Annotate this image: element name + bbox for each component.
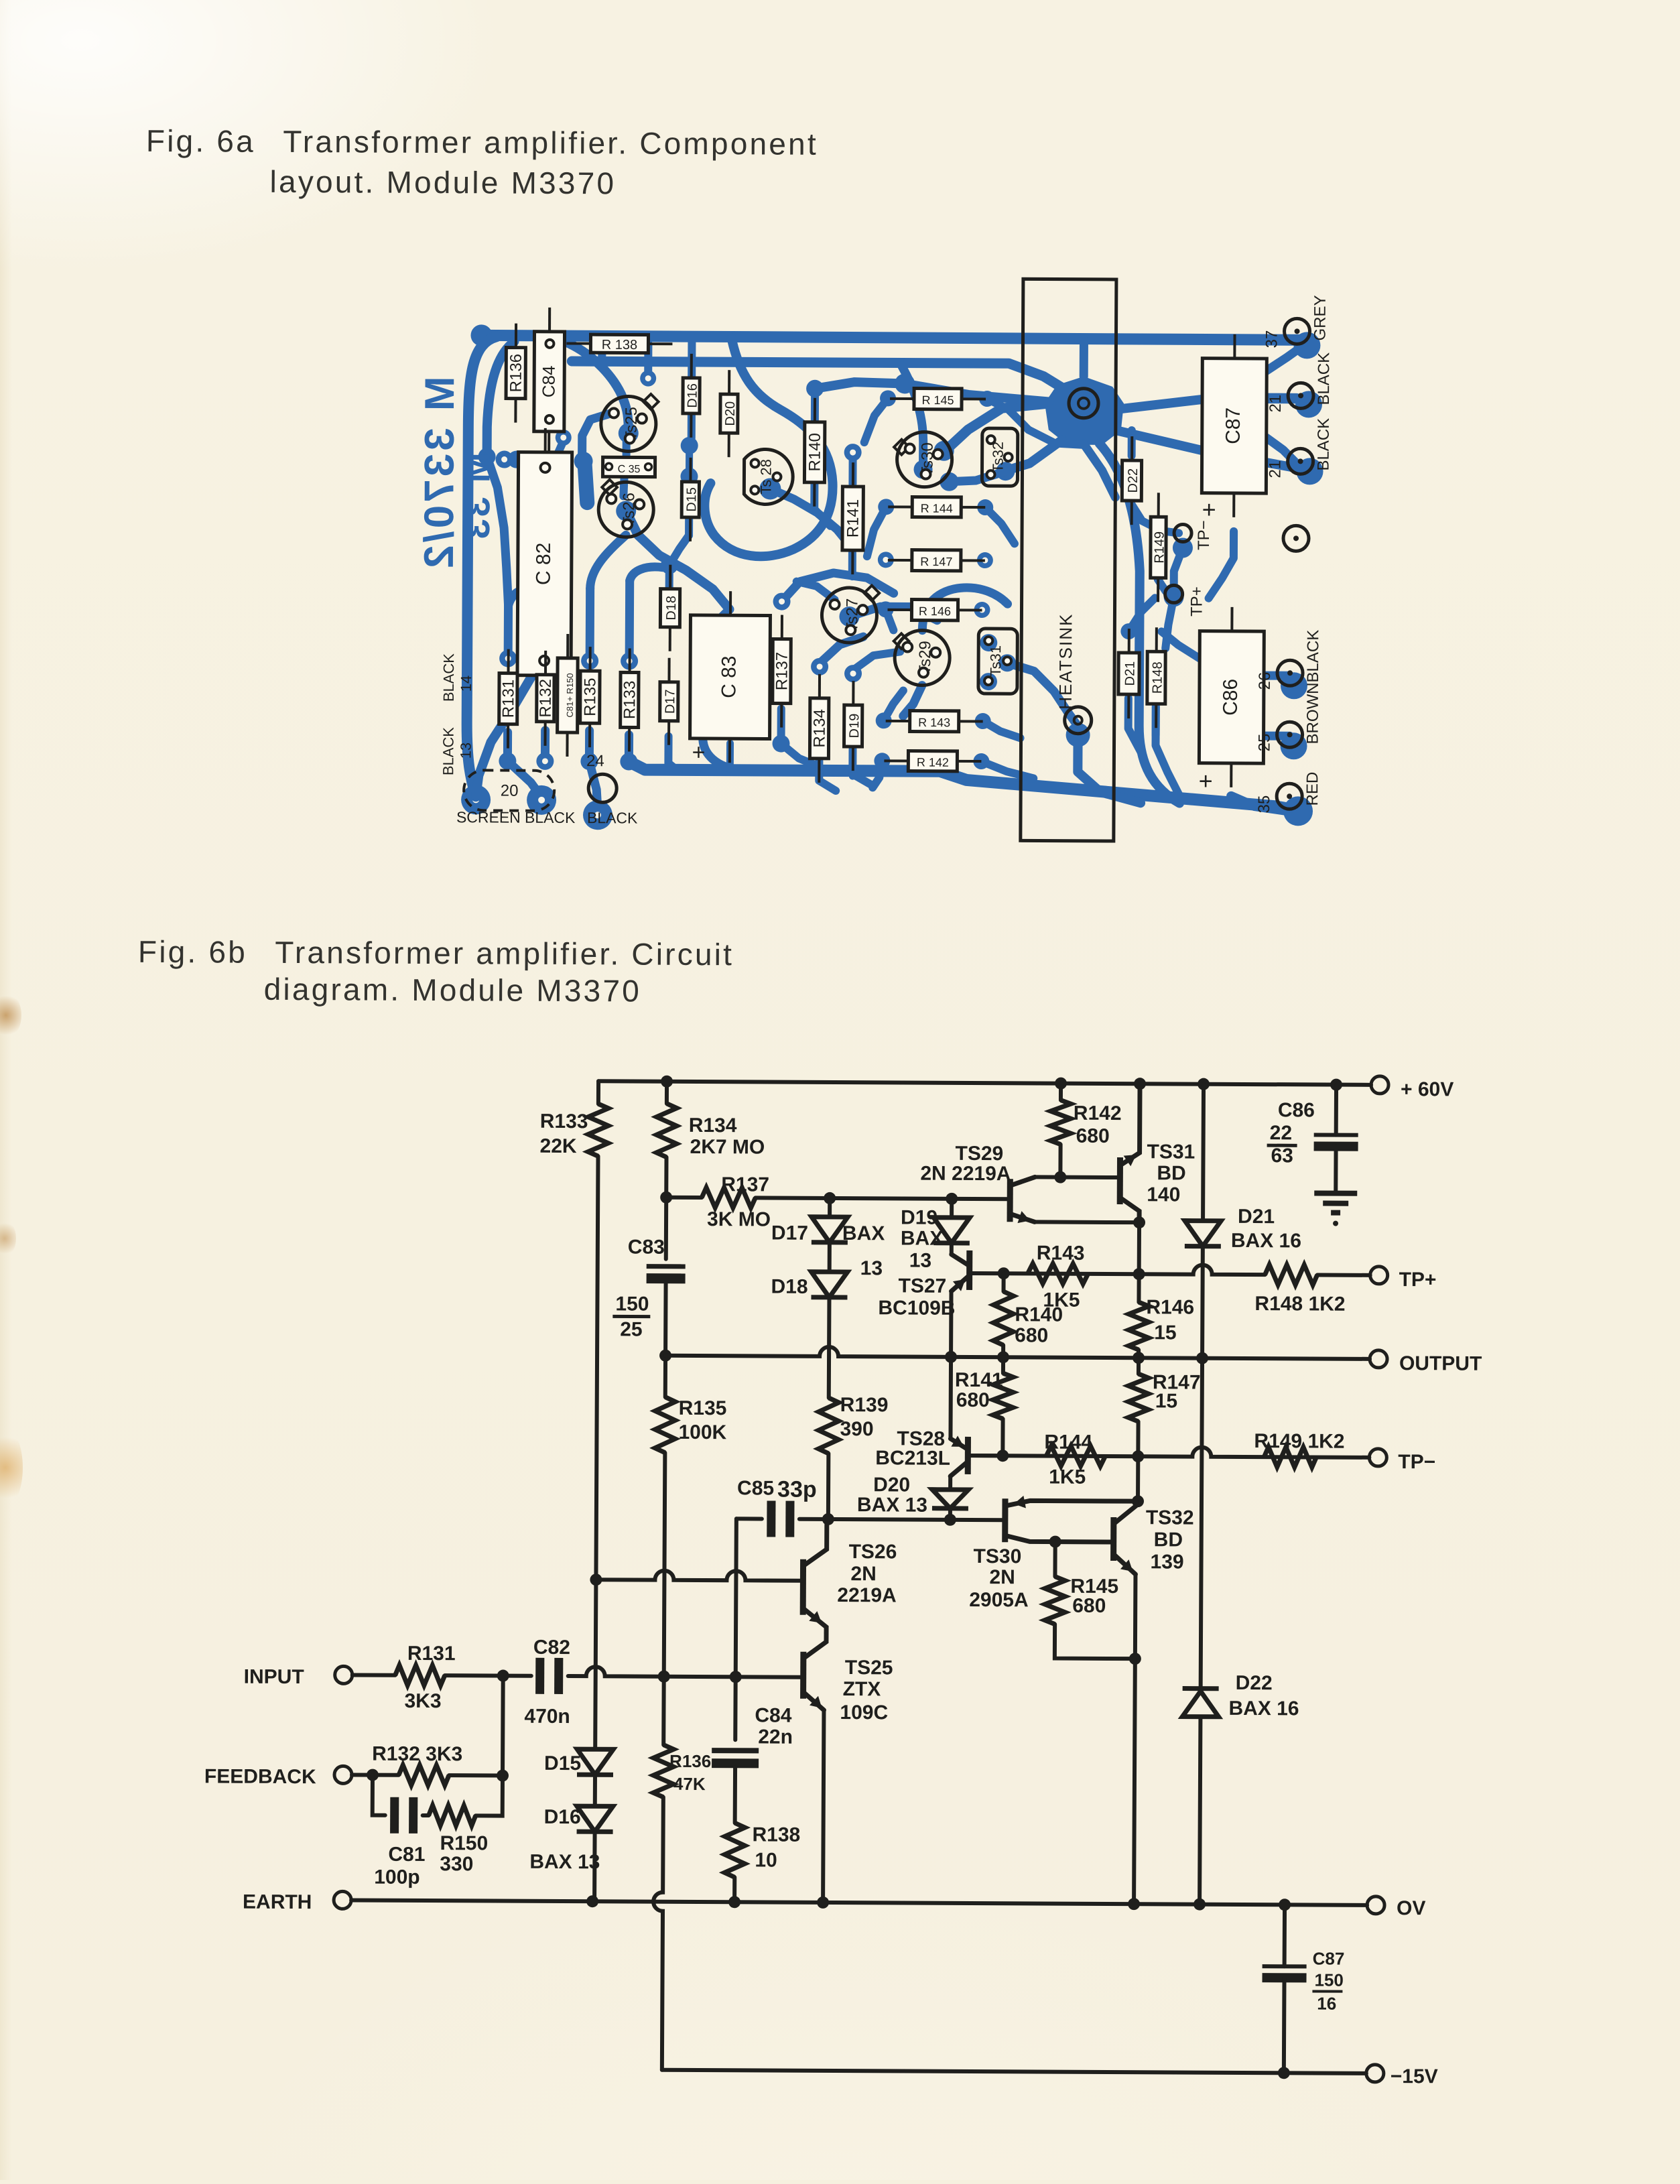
diode D16 [577, 1806, 613, 1832]
wire TS25 left to C35 [582, 413, 612, 458]
svg-text:R 145: R 145 [921, 393, 954, 407]
transistor TS26 (layout) [602, 480, 617, 495]
svg-text:2K7 MO: 2K7 MO [690, 1136, 765, 1159]
capacitor C83 (layout) [729, 591, 732, 615]
resistor R136 [653, 1745, 673, 1797]
wire horizontal resistor left pads [880, 390, 896, 406]
wire -15V rail [662, 2070, 1366, 2073]
svg-text:R133: R133 [540, 1110, 588, 1133]
wire +60V top rail [598, 1081, 1371, 1085]
resistor R148 [1265, 1265, 1317, 1285]
svg-text:C85: C85 [737, 1477, 774, 1499]
capacitor C85 (layout C 35) [602, 466, 604, 468]
svg-text:TS25: TS25 [845, 1657, 893, 1679]
transistor TS25 [800, 1652, 806, 1699]
svg-text:BLACK: BLACK [587, 809, 638, 826]
diode D17 (layout) [667, 658, 670, 682]
svg-text:15: 15 [1155, 1390, 1178, 1412]
svg-text:R133: R133 [621, 681, 639, 720]
wire inner left curve [487, 341, 515, 454]
wire left loop vertical (R133/D15/D16 column) [596, 1081, 600, 1104]
svg-text:R134: R134 [689, 1114, 737, 1137]
resistor R140 (layout) [814, 398, 816, 422]
TS26 base line (hops R134 and C84 columns) [596, 1570, 803, 1581]
svg-text:47K: 47K [673, 1774, 706, 1794]
test point TP- pad [1174, 524, 1191, 541]
terminal EARTH [334, 1891, 351, 1909]
svg-text:M 3370/2: M 3370/2 [416, 376, 463, 571]
wire C83 diagonals [704, 636, 760, 728]
wire C83 bottom lead to rail [726, 743, 734, 769]
wire R149 bottom to TP+ blob [1158, 579, 1174, 596]
svg-text:BAX 16: BAX 16 [1231, 1230, 1301, 1252]
TP- line [968, 1446, 1369, 1458]
heatsink mounting rings [1069, 389, 1098, 418]
diode D21 [1198, 1078, 1210, 1090]
TP+ line [1004, 1264, 1265, 1275]
wire under heatsink horizontals [1029, 430, 1082, 444]
svg-text:+: + [692, 740, 705, 765]
svg-text:C 35: C 35 [618, 464, 641, 475]
transistor TS26 [800, 1559, 806, 1615]
svg-text:R 144: R 144 [921, 502, 953, 515]
transistor TS31 (layout) [978, 629, 1017, 694]
svg-text:R142: R142 [1074, 1102, 1122, 1125]
svg-text:D20: D20 [873, 1474, 910, 1496]
svg-text:14: 14 [458, 676, 474, 692]
connector rings right [1284, 318, 1309, 344]
svg-text:C86: C86 [1220, 679, 1242, 716]
heatsink outline [1021, 279, 1116, 841]
svg-text:680: 680 [956, 1389, 990, 1411]
svg-text:20: 20 [501, 782, 519, 800]
wire under D16 vertical [688, 338, 696, 438]
svg-text:TP+: TP+ [1399, 1269, 1437, 1291]
transistor TS28 (layout) [744, 449, 793, 504]
svg-text:BC109B: BC109B [878, 1297, 955, 1320]
wire right resistor leads to heatsink column [979, 391, 995, 407]
svg-text:D17: D17 [771, 1222, 808, 1244]
diode D17 [812, 1217, 848, 1242]
svg-text:330: 330 [440, 1853, 473, 1875]
resistor R131 (layout) [507, 649, 510, 673]
svg-text:R137: R137 [773, 652, 791, 691]
svg-text:INPUT: INPUT [244, 1666, 304, 1688]
terminal INPUT [335, 1666, 352, 1683]
wire D15-D16 [593, 1775, 597, 1806]
svg-text:470n: 470n [524, 1706, 570, 1728]
wire C87 right leads [1267, 393, 1297, 402]
resistor R141 [993, 1373, 1013, 1419]
wire star pad left arm to TS30 [948, 403, 1052, 449]
svg-text:C81+ R150: C81+ R150 [565, 673, 575, 717]
wire R148 bottom to bottom rail [1155, 706, 1180, 795]
svg-text:3K MO: 3K MO [707, 1208, 771, 1230]
resistor R132 (layout) [544, 651, 547, 675]
wire star to right connectors [1121, 398, 1297, 409]
svg-text:BAX 16: BAX 16 [1228, 1697, 1299, 1720]
wire TS25 bottom to C35 right [623, 441, 631, 462]
svg-text:GREY: GREY [1311, 295, 1329, 340]
svg-text:680: 680 [1072, 1595, 1106, 1617]
svg-text:R141: R141 [844, 499, 862, 538]
wire bottom rail Q3 [629, 761, 1295, 810]
wire second rail trace [572, 361, 1062, 388]
wire C84 bottom pads [496, 450, 513, 468]
diode D21 (layout) [1128, 629, 1130, 653]
svg-text:C84: C84 [539, 365, 559, 397]
wire trace to TS25 [565, 342, 629, 431]
svg-text:C84: C84 [755, 1704, 792, 1726]
svg-text:FEEDBACK: FEEDBACK [204, 1765, 316, 1788]
ground symbol [1314, 1190, 1357, 1196]
board legend M3370/2 mirrored [416, 376, 463, 571]
transistor TS27 [966, 1250, 972, 1290]
svg-text:R 138: R 138 [602, 338, 637, 352]
wire TS29 bottom to R143 [903, 685, 922, 716]
wire TS28 centre blob [759, 478, 781, 499]
svg-text:37: 37 [1263, 330, 1281, 348]
terminal TP+ [1370, 1267, 1388, 1284]
wire resistor top pads Q3 [504, 606, 513, 659]
wire C87 top to grey blob [1267, 345, 1303, 371]
transistor TS32 [1110, 1517, 1116, 1561]
resistor R131 [395, 1665, 445, 1685]
svg-text:ZTX: ZTX [843, 1678, 881, 1700]
svg-text:RED: RED [1303, 772, 1321, 806]
svg-text:R134: R134 [810, 709, 828, 748]
svg-text:C82: C82 [533, 1636, 570, 1659]
svg-text:R140: R140 [1015, 1303, 1063, 1326]
svg-text:BAX: BAX [901, 1227, 944, 1249]
wire C87 plus lead trace [1209, 531, 1234, 598]
svg-text:2219A: 2219A [837, 1584, 897, 1606]
wire heatsink inner blob [1066, 723, 1090, 747]
svg-text:140: 140 [1147, 1183, 1180, 1206]
wire right of C83 [782, 573, 894, 602]
svg-text:D17: D17 [663, 689, 677, 714]
svg-text:OUTPUT: OUTPUT [1399, 1352, 1482, 1375]
svg-text:R136: R136 [507, 354, 525, 393]
diode D20 [932, 1490, 968, 1508]
svg-text:R146: R146 [1146, 1296, 1194, 1318]
resistor R140 [1002, 1273, 1006, 1291]
wire D16 to earth [592, 1832, 597, 1901]
svg-text:63: 63 [1271, 1145, 1293, 1167]
svg-text:13: 13 [860, 1257, 883, 1279]
wire traces above TS29 [901, 365, 924, 469]
svg-text:EARTH: EARTH [243, 1891, 312, 1914]
resistor R149 [1264, 1447, 1316, 1467]
transistor TS28 [965, 1437, 971, 1474]
svg-text:D21: D21 [1122, 661, 1137, 686]
resistor R133 (layout) [629, 648, 631, 672]
svg-text:33p: 33p [777, 1477, 817, 1502]
resistor R145 (layout) [890, 397, 914, 400]
svg-text:D19: D19 [847, 714, 862, 738]
svg-text:TP+: TP+ [1187, 586, 1206, 617]
svg-text:16: 16 [1317, 1993, 1336, 2013]
OUTPUT line [665, 1346, 1370, 1359]
capacitor C83 [647, 1264, 686, 1269]
svg-text:C 83: C 83 [718, 655, 740, 698]
svg-text:BAX 13: BAX 13 [529, 1851, 600, 1874]
svg-text:TP−: TP− [1398, 1451, 1435, 1473]
wire R140 top to star left arm [815, 382, 1049, 402]
capacitor C87 (layout) [1233, 334, 1236, 359]
resistor R142 (layout) [884, 759, 908, 762]
capacitor C81 [390, 1797, 399, 1834]
svg-text:R150: R150 [440, 1832, 488, 1854]
svg-text:680: 680 [1015, 1324, 1048, 1346]
wire D17/D18 leads Q3 [668, 736, 678, 771]
terminal TP- [1369, 1449, 1386, 1466]
svg-text:D18: D18 [664, 596, 679, 621]
svg-text:+: + [1202, 496, 1216, 523]
diode D18 (layout) [669, 565, 671, 589]
wire star lower arms [1083, 444, 1115, 497]
svg-text:10: 10 [755, 1849, 777, 1871]
svg-text:26: 26 [1256, 672, 1274, 690]
wire top rail trace [470, 324, 492, 346]
terminal -15V [1366, 2065, 1384, 2082]
svg-text:R132: R132 [537, 679, 555, 718]
svg-text:21: 21 [1267, 395, 1285, 413]
diode D20 (layout) [728, 370, 730, 394]
resistor R146 (layout) [888, 608, 912, 611]
svg-text:25: 25 [1255, 734, 1273, 752]
wire star to TS32 [1009, 440, 1062, 470]
capacitor C86 [1330, 1079, 1342, 1091]
resistor R137 (layout) [781, 615, 783, 639]
capacitor C84 [712, 1748, 759, 1753]
svg-text:BLACK: BLACK [440, 653, 457, 702]
svg-text:2N: 2N [850, 1563, 877, 1585]
wire D21 column down (hops TP+) [1200, 1246, 1205, 1358]
svg-text:15: 15 [1154, 1322, 1177, 1344]
terminal OUTPUT [1370, 1350, 1387, 1368]
svg-text:TS31: TS31 [1147, 1141, 1195, 1163]
svg-text:1K5: 1K5 [1049, 1466, 1086, 1488]
svg-text:BLACK: BLACK [1304, 630, 1322, 683]
svg-text:R 147: R 147 [920, 555, 952, 568]
resistor R135 [655, 1397, 675, 1453]
wire C86 area [1264, 671, 1290, 680]
svg-text:22K: 22K [540, 1135, 578, 1157]
capacitor C84 (layout) [548, 308, 551, 332]
wire TS31 right to heatsink blob [1068, 712, 1078, 726]
svg-text:C 82: C 82 [533, 543, 555, 586]
transistor TS25 (layout) [643, 394, 659, 409]
svg-text:R 146: R 146 [919, 604, 951, 618]
svg-text:TS29: TS29 [955, 1143, 1003, 1165]
svg-text:24: 24 [586, 752, 604, 770]
resistor R144 [1046, 1446, 1105, 1466]
wire TS31 pads [980, 634, 997, 651]
svg-text:R138: R138 [752, 1823, 800, 1846]
diode D22 (layout) [1130, 436, 1133, 460]
svg-text:BLACK: BLACK [1315, 352, 1333, 405]
svg-text:TP−: TP− [1195, 520, 1213, 550]
svg-text:25: 25 [620, 1318, 643, 1340]
svg-text:R141: R141 [955, 1369, 1003, 1391]
wire D19/R134 bottom to rail [849, 751, 856, 776]
svg-text:R132 3K3: R132 3K3 [372, 1743, 462, 1766]
pin 24 ring [588, 774, 617, 802]
transistor TS30 [1002, 1498, 1008, 1542]
wire star down right of heatsink [1098, 444, 1181, 804]
svg-text:680: 680 [1076, 1125, 1110, 1147]
svg-text:HEATSINK: HEATSINK [1055, 613, 1076, 710]
svg-text:+ 60V: + 60V [1401, 1078, 1453, 1100]
svg-text:D15: D15 [684, 487, 699, 512]
svg-text:109C: 109C [840, 1701, 888, 1724]
svg-text:C87: C87 [1313, 1948, 1345, 1968]
svg-text:R143: R143 [1037, 1242, 1085, 1264]
resistor R134 (layout) [818, 674, 821, 698]
resistor R143 [1028, 1263, 1088, 1283]
pin 20 dashed outline [464, 770, 554, 811]
wire TS31 emitter column down [1137, 1222, 1141, 1302]
terminal FEEDBACK [334, 1766, 352, 1783]
svg-text:R148 1K2: R148 1K2 [1254, 1293, 1345, 1315]
resistor R137 [702, 1187, 755, 1208]
C85 line [736, 1517, 762, 1521]
wire R140/R141 leads Q1 [811, 392, 819, 421]
svg-text:TS26: TS26 [849, 1541, 897, 1563]
wire C82 bottom to screen pad [476, 676, 531, 797]
capacitor C81 + resistor R150 (layout) [566, 634, 569, 658]
svg-text:BLACK: BLACK [525, 809, 576, 826]
diode D22 [1183, 1686, 1219, 1691]
resistor R133 [588, 1104, 608, 1156]
capacitor C87 [1283, 1905, 1287, 1966]
svg-text:D15: D15 [544, 1752, 581, 1775]
wire C85/C84/R138 column [735, 1519, 736, 1740]
svg-text:D21: D21 [1238, 1206, 1275, 1228]
transistor TS31 [1117, 1157, 1123, 1204]
resistor R143 (layout) [886, 720, 910, 722]
wire C35 to TS26 thick [584, 464, 587, 503]
transistor TS29 (layout) [894, 633, 909, 649]
svg-text:TS27: TS27 [898, 1275, 946, 1297]
resistor R147 (layout) [888, 559, 912, 562]
diode D19 [950, 1199, 954, 1218]
wire TS26 pads [616, 501, 636, 521]
svg-text:BD: BD [1154, 1529, 1183, 1551]
wire big swirl around TS28 [704, 338, 834, 557]
svg-text:D18: D18 [771, 1276, 807, 1298]
resistor R138 [724, 1823, 745, 1877]
resistor R136 (layout) [515, 324, 517, 348]
resistor R146 [1128, 1302, 1149, 1350]
svg-text:35: 35 [1255, 795, 1273, 814]
svg-text:R140: R140 [806, 433, 824, 472]
svg-text:150: 150 [615, 1293, 649, 1315]
svg-text:BLACK: BLACK [1315, 418, 1333, 471]
svg-text:R131: R131 [407, 1643, 456, 1665]
svg-text:OV: OV [1397, 1897, 1426, 1919]
resistor R148 (layout) [1155, 627, 1158, 651]
wire grey connector blob [1293, 332, 1320, 359]
svg-text:C87: C87 [1222, 407, 1244, 444]
transistor TS30 (layout) [894, 440, 909, 455]
test point TP+ pad [1165, 585, 1183, 602]
svg-text:R135: R135 [679, 1397, 727, 1419]
svg-text:21: 21 [1266, 460, 1284, 478]
screen/black pads [461, 785, 491, 814]
svg-text:13: 13 [909, 1250, 932, 1272]
svg-text:R149: R149 [1152, 531, 1167, 564]
svg-text:C86: C86 [1278, 1099, 1315, 1121]
svg-text:M 33: M 33 [457, 452, 498, 541]
svg-text:D20: D20 [723, 401, 738, 426]
svg-text:R136: R136 [669, 1751, 711, 1771]
svg-text:R 143: R 143 [918, 716, 950, 729]
svg-text:R139: R139 [840, 1394, 889, 1416]
resistor R150 [429, 1805, 476, 1825]
svg-text:BAX: BAX [842, 1222, 885, 1244]
svg-text:+: + [1199, 767, 1213, 795]
svg-text:D22: D22 [1236, 1672, 1273, 1694]
capacitor C86 (layout) [1230, 607, 1233, 631]
svg-text:R149 1K2: R149 1K2 [1254, 1430, 1344, 1453]
svg-text:−15V: −15V [1391, 2065, 1438, 2087]
svg-text:150: 150 [1314, 1970, 1344, 1990]
diode D15 [577, 1749, 613, 1775]
figure 6b circuit diagram [182, 1042, 1528, 2148]
svg-text:Ts31: Ts31 [987, 645, 1004, 677]
capacitor C82 [535, 1658, 544, 1694]
wire mid column verticals [644, 344, 652, 375]
svg-text:TS32: TS32 [1146, 1506, 1194, 1529]
svg-text:BAX 13: BAX 13 [857, 1494, 927, 1517]
resistor R142 [1055, 1078, 1067, 1090]
svg-text:3K3: 3K3 [404, 1690, 441, 1712]
resistor R149 (layout) [1157, 493, 1160, 517]
svg-text:D16: D16 [685, 383, 700, 408]
svg-text:R131: R131 [499, 680, 517, 718]
svg-text:C81: C81 [388, 1844, 425, 1866]
svg-text:2N: 2N [989, 1566, 1015, 1588]
resistor R141 (layout) [852, 462, 854, 487]
wire D22 bottom [1131, 504, 1179, 533]
wire D21/R148 bottom leads [1128, 698, 1141, 752]
diode D18 [811, 1272, 847, 1297]
svg-text:390: 390 [840, 1418, 873, 1440]
resistor R135 (layout) [589, 647, 592, 671]
wire R137 base line [666, 1196, 702, 1200]
svg-text:D19: D19 [901, 1206, 938, 1228]
svg-text:BROWN: BROWN [1304, 682, 1322, 744]
svg-text:D22: D22 [1126, 468, 1141, 493]
wire R134/C83/R135/R136 column [665, 1082, 669, 1104]
svg-text:R148: R148 [1150, 661, 1165, 694]
diode D19 (layout) [852, 681, 854, 705]
diode D16 (layout) [690, 354, 693, 378]
wire D22 top [1128, 430, 1136, 456]
resistor R147 [1128, 1374, 1149, 1421]
title figure 6a [146, 123, 818, 162]
svg-text:13: 13 [457, 743, 474, 759]
wire D17/D18/R139 column [828, 1198, 832, 1217]
resistor R145 [1053, 1542, 1057, 1577]
svg-text:22: 22 [1270, 1122, 1293, 1144]
svg-text:R 142: R 142 [917, 756, 949, 769]
wire left edge long trace [466, 336, 496, 797]
capacitor C82 (layout) [544, 428, 547, 452]
resistor R134 [657, 1104, 677, 1157]
